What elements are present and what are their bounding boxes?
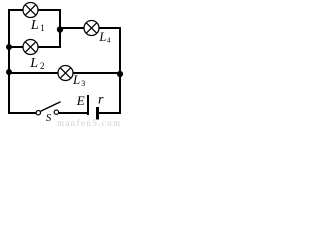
svg-text:3: 3 (81, 79, 85, 88)
lamp L3 (58, 66, 73, 81)
wire L4 branch left segment (60, 27, 84, 29)
switch S contact right (54, 110, 58, 114)
battery short electrode (96, 107, 99, 120)
svg-text:S: S (46, 112, 52, 124)
wire top branch left segment (8, 9, 23, 11)
lamp L1 (23, 3, 38, 18)
junction dot right L3 (117, 71, 123, 77)
wire L2 branch right segment (38, 46, 61, 48)
wire bottom middle segment switch to battery (59, 112, 88, 114)
wire L3 branch right segment (73, 72, 121, 74)
junction dot middle L1-L4 (57, 26, 63, 32)
battery long electrode (87, 95, 89, 115)
wire bottom left segment (8, 112, 36, 114)
svg-text:2: 2 (40, 61, 45, 71)
switch S contact left (36, 111, 40, 115)
wire top branch right segment (38, 9, 61, 11)
lamp L2 (23, 40, 38, 55)
svg-text:manfen5.com: manfen5.com (57, 118, 120, 128)
label L3 (72, 72, 85, 88)
svg-text:1: 1 (40, 23, 45, 33)
svg-text:r: r (98, 93, 104, 108)
svg-text:L: L (29, 56, 38, 71)
svg-text:L: L (72, 72, 80, 87)
label L4 (98, 30, 110, 44)
wire L3 branch left segment (9, 72, 58, 74)
svg-text:4: 4 (107, 35, 111, 44)
label L1 (30, 18, 45, 33)
wire left vertical (8, 9, 10, 114)
label L2 (29, 56, 44, 71)
svg-text:E: E (76, 93, 85, 108)
svg-text:L: L (98, 30, 106, 44)
svg-text:L: L (30, 18, 39, 33)
wire bottom right segment battery to corner (98, 112, 121, 114)
junction dot left L3 (6, 69, 12, 75)
wire right vertical (119, 27, 121, 114)
wire L2 branch left segment (9, 46, 23, 48)
wire middle vertical connector (59, 9, 61, 48)
wire L4 branch right segment (99, 27, 121, 29)
switch S blade (41, 102, 61, 112)
lamp L4 (84, 21, 99, 36)
junction dot left L2 (6, 44, 12, 50)
